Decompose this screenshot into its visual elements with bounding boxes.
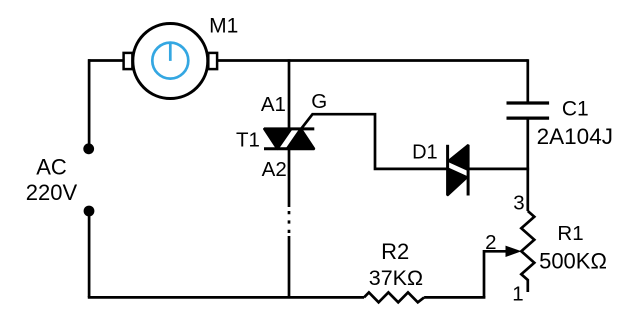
svg-text:37KΩ: 37KΩ xyxy=(369,266,423,290)
wire: bottom rail right of R2 to wiper riser xyxy=(424,296,485,299)
wiper arrow (pin 2) xyxy=(484,246,522,298)
svg-text:AC: AC xyxy=(36,155,67,180)
wire: dashed continuation marks below triac xyxy=(288,211,291,233)
wire: top rail from motor right brush to C1 column xyxy=(218,59,528,62)
wire: top-left horizontal from AC column to motor left brush xyxy=(88,59,123,62)
svg-text:2: 2 xyxy=(485,231,496,254)
svg-text:D1: D1 xyxy=(412,141,438,163)
svg-text:G: G xyxy=(311,90,327,113)
wire: triac column lower solid part to bottom rail xyxy=(288,236,291,297)
wire: D1 right terminal to C1/R1 column xyxy=(468,168,529,171)
triac T1 xyxy=(264,129,314,149)
wire: triac column below A2 (solid upper part) xyxy=(288,149,291,207)
wire: gate wire from triac gate to D1 xyxy=(301,114,448,169)
resistor R2 xyxy=(364,292,424,302)
svg-text:R1: R1 xyxy=(557,222,583,245)
svg-text:A1: A1 xyxy=(261,93,286,116)
svg-text:1: 1 xyxy=(512,283,523,306)
svg-text:M1: M1 xyxy=(209,15,238,38)
svg-text:R2: R2 xyxy=(381,239,409,264)
svg-text:C1: C1 xyxy=(562,97,589,120)
capacitor C1 xyxy=(507,59,550,211)
svg-text:A2: A2 xyxy=(262,158,287,181)
motor M1 xyxy=(124,24,218,99)
svg-text:T1: T1 xyxy=(236,129,260,152)
potentiometer R1 xyxy=(521,211,534,292)
svg-text:500KΩ: 500KΩ xyxy=(539,248,607,273)
node: AC bottom terminal dot xyxy=(84,206,95,217)
wire: bottom rail left of R2 xyxy=(88,296,364,299)
svg-text:3: 3 xyxy=(513,191,524,214)
svg-text:2A104J: 2A104J xyxy=(537,124,613,149)
wire: left column lower segment from AC bottom terminal to bottom rail xyxy=(88,211,91,297)
wire: triac column from top rail down to triac A1 bar xyxy=(288,59,291,129)
svg-text:220V: 220V xyxy=(26,180,78,205)
wire: left column upper segment down to AC top terminal xyxy=(88,59,91,148)
node: AC top terminal dot xyxy=(83,143,94,154)
diac D1 xyxy=(448,145,469,196)
